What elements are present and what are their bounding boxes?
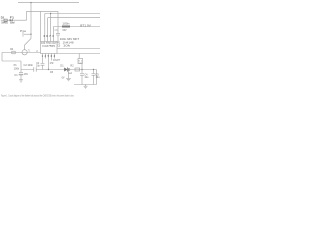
resistor box on line <box>75 68 80 71</box>
left diode triangle <box>10 19 13 21</box>
wire bus y13.5 <box>45 13 100 15</box>
potentiometer body x21 <box>20 61 22 72</box>
transistor T1 circle <box>22 50 27 55</box>
electrolytic C1 plates <box>19 72 23 75</box>
wire pin wire x53.5 <box>53 27 55 42</box>
svg-text:OUT: OUT <box>53 59 61 62</box>
junction C5 <box>93 69 94 70</box>
junction gnd drop <box>68 69 69 70</box>
wire bus y11.4 <box>27 10 59 12</box>
trimmer bar <box>22 32 24 37</box>
IC bottom pin x45.5 <box>45 54 47 59</box>
junction pin x51 bus <box>50 13 51 14</box>
diode D1 circle <box>68 68 70 70</box>
svg-text:C2 100n: C2 100n <box>24 64 34 67</box>
svg-text:10u: 10u <box>96 76 100 79</box>
wire left mid y52.5 <box>2 52 41 54</box>
svg-text:63V: 63V <box>63 30 68 32</box>
wire pin wire x45.5 <box>44 14 46 42</box>
svg-text:100mA: 100mA <box>10 22 15 25</box>
wire left input y61 <box>2 60 21 62</box>
connector box K1 <box>78 59 83 64</box>
component box on y52.5 <box>12 51 15 54</box>
wire left component row y20.2 <box>1 19 27 21</box>
wire cap to bottom line <box>42 65 44 69</box>
IC bottom pin x54.5 <box>54 54 56 59</box>
svg-text:1N4001: 1N4001 <box>1 22 8 25</box>
wire IC right y53.5 <box>57 53 100 55</box>
wire C3 bottom <box>57 35 59 42</box>
wire step left x26.5 <box>26 11 28 20</box>
svg-text:16V: 16V <box>24 74 29 76</box>
svg-text:100n: 100n <box>62 24 70 26</box>
junction trimmer <box>30 34 31 35</box>
junction pin3 bottom <box>48 69 49 70</box>
svg-text:10n: 10n <box>36 65 41 68</box>
wire bus y26.5 <box>54 26 101 28</box>
capacitor C3 plates <box>56 33 60 35</box>
svg-text:10u: 10u <box>84 76 89 79</box>
wire pin wire x40.5 from bus y11.4 <box>40 11 42 41</box>
wire top bus V+ <box>18 2 79 4</box>
wire bottom line y69.5 <box>21 69 97 71</box>
IC box U1 <box>41 42 58 54</box>
wire right rail x96.5 <box>96 70 98 85</box>
IC bottom pin x42.5 <box>42 54 44 64</box>
diode D1 <box>64 68 68 72</box>
wire K1 down <box>81 64 83 70</box>
svg-text:0V: 0V <box>62 76 65 79</box>
capacitor C4 plates <box>80 74 84 76</box>
IC bottom pin x48.5 out <box>48 54 50 70</box>
wire diagonal to transistor <box>25 39 31 50</box>
svg-text:P1a: P1a <box>20 30 27 33</box>
ground under C1 <box>19 80 23 82</box>
junction top x31 <box>30 2 31 3</box>
wire C5 drop <box>93 70 95 74</box>
wire pin wire x51 <box>50 14 52 42</box>
component dark box on bus y26.5 <box>62 26 70 28</box>
ground under bus <box>84 85 88 89</box>
wire K1 riser <box>78 54 80 59</box>
wire gnd drop x68.5 <box>68 70 70 79</box>
svg-text:ICM7555: ICM7555 <box>42 45 55 48</box>
wire vertical x58 down to C3 <box>57 11 59 33</box>
capacitor series in bottom line <box>34 67 36 71</box>
capacitor C5 plates <box>92 74 96 76</box>
svg-text:out: out <box>79 61 83 64</box>
wire C4 drop <box>81 70 83 74</box>
trimmer P? stub <box>24 33 31 35</box>
svg-text:Figure 1. Circuit diagram of t: Figure 1. Circuit diagram of the flasher… <box>1 93 74 97</box>
svg-text:100k: 100k <box>14 67 20 70</box>
wire vertical x31 from top bus <box>30 3 32 39</box>
capacitor on pin x42.5 <box>41 64 45 66</box>
IC bottom pin x51.5 <box>51 54 53 61</box>
left component box 1 <box>4 19 7 21</box>
left diode bar <box>12 19 14 21</box>
wire C5 bottom <box>93 75 95 84</box>
wire IC right y48.5 <box>57 48 100 50</box>
wire C1 to ground <box>20 75 22 80</box>
wire ground bus y84.5 <box>74 84 97 86</box>
svg-text:BT1 9V: BT1 9V <box>80 24 91 28</box>
ground bars x68.5 <box>66 79 71 81</box>
wire pin wire x48 <box>47 18 49 42</box>
wire C4 bottom <box>81 75 83 84</box>
wire bus y17.7 <box>48 17 100 19</box>
wire left stub x2 <box>1 53 3 62</box>
junction C4 <box>81 69 82 70</box>
